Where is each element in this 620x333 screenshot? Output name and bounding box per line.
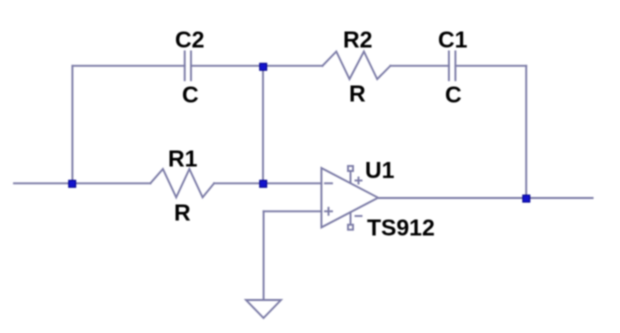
resistor R1 (150, 169, 214, 197)
wire left vertical (71, 66, 73, 184)
op-amp V- pin (348, 212, 362, 229)
node junction middle (260, 180, 267, 187)
op-amp non-inverting symbol (325, 208, 332, 215)
wire top horizontal middle segment (191, 65, 323, 67)
svg-text:U1: U1 (365, 157, 395, 183)
wire middle horizontal input segment (14, 182, 150, 184)
svg-text:C2: C2 (175, 27, 204, 53)
wire top horizontal left segment (72, 65, 184, 67)
wire non-inverting input horizontal (264, 210, 322, 212)
wire middle horizontal to op-amp (214, 182, 321, 184)
svg-text:C: C (445, 82, 462, 108)
svg-text:R: R (174, 200, 191, 226)
svg-text:C1: C1 (438, 27, 468, 53)
svg-text:R1: R1 (168, 146, 198, 172)
op-amp U1 (321, 168, 378, 227)
wire ground vertical (263, 211, 265, 300)
node junction left (69, 180, 76, 187)
capacitor C2 (185, 51, 191, 80)
op-amp inverting symbol (325, 182, 332, 184)
node junction top (260, 63, 267, 70)
wire output horizontal (378, 197, 592, 199)
op-amp V+ pin (348, 166, 362, 184)
svg-text:C: C (182, 82, 199, 108)
svg-text:R2: R2 (343, 27, 372, 53)
wire top horizontal R2 to C1 (390, 65, 449, 67)
node junction output (523, 195, 530, 202)
wire vertical node junction (262, 66, 264, 184)
svg-text:R: R (349, 81, 366, 107)
wire top horizontal C1 to corner (455, 65, 526, 67)
svg-text:TS912: TS912 (367, 215, 435, 241)
resistor R2 (323, 52, 391, 80)
capacitor C1 (449, 51, 456, 80)
wire right vertical (525, 66, 527, 198)
ground (246, 300, 281, 318)
